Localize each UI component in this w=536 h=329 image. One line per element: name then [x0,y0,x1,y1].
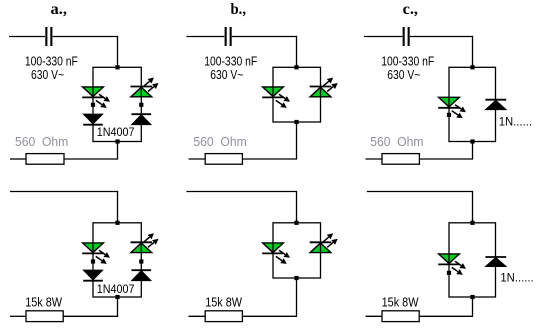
node d left mid junction [91,259,95,263]
wire b top-left segment [187,36,225,38]
LED D2d green [131,233,159,252]
wire a bridge loop [93,67,141,141]
svg-text:630 V~: 630 V~ [31,68,64,82]
node c below LED junction [447,113,451,117]
wire e resistor left stub [189,315,206,317]
resistor R2f 15k 8W [382,311,419,322]
node a top junction [115,65,119,69]
wire b bottom horizontal [243,158,298,160]
svg-text:b.,: b., [231,1,247,18]
wire b resistor left stub [189,158,206,160]
wire b bottom down [296,122,298,159]
resistor R2d 15k 8W [26,311,63,322]
wire a cap to corner [53,36,119,38]
LED D1b green [262,87,290,108]
resistor R1c 560 Ohm [382,154,419,165]
wire c bottom horizontal [419,158,473,160]
diode D4d 1N4007 [132,270,152,280]
wire b bridge loop [273,67,321,122]
wire c resistor left stub [366,158,383,160]
wire d resistor left stub [10,315,26,317]
capacitor C-b 100-330nF [225,27,232,46]
diode D2c 1N [485,100,506,110]
LED D1a green [82,87,110,108]
node a bottom junction [115,139,119,143]
svg-text:630 V~: 630 V~ [387,68,420,82]
svg-text:560 Ohm: 560 Ohm [370,135,423,149]
svg-text:1N4007: 1N4007 [97,125,135,139]
LED D2a green [131,78,159,97]
wire b cap to corner [232,36,297,38]
wire f bottom horizontal [419,315,473,317]
svg-text:15k 8W: 15k 8W [205,296,242,310]
wire e bottom down [296,278,298,316]
wire e feed down [296,191,298,223]
wire c feed down [472,36,474,67]
svg-text:560 Ohm: 560 Ohm [15,135,68,149]
node c bottom junction [470,139,474,143]
node f below LED junction [447,271,451,275]
wire c top-left segment [364,36,402,38]
wire f bridge loop [449,223,496,297]
svg-text:1N4007: 1N4007 [97,282,135,296]
wire c bottom down [472,142,474,160]
LED D1d green [82,243,110,264]
LED D2e green [310,233,338,252]
LED D1f green [438,254,466,275]
svg-text:a.,: a., [51,1,68,18]
capacitor C-c 100-330nF [403,27,410,46]
LED D1c green [438,97,466,118]
LED D1e green [262,243,290,264]
resistor R2e 15k 8W [205,311,242,322]
node f top junction [470,221,474,225]
capacitor C-a 100-330nF [45,27,52,46]
LED D2b green [310,78,338,97]
svg-text:560 Ohm: 560 Ohm [193,135,246,149]
diode D4a 1N4007 [132,114,152,124]
svg-text:630 V~: 630 V~ [210,68,243,82]
wire a top-left segment [9,36,45,38]
wire f feed down [472,191,474,223]
wire f top segment [367,191,473,193]
wire d bridge loop [93,223,141,297]
svg-text:100-330 nF: 100-330 nF [25,54,78,68]
svg-text:1N......: 1N...... [499,114,532,128]
svg-text:1N......: 1N...... [500,271,533,285]
node d right mid junction [139,259,143,263]
node c top junction [470,65,474,69]
wire c bridge loop [449,67,496,141]
wire d bottom horizontal [63,315,118,317]
node a left mid junction [91,103,95,107]
node b bottom junction [294,120,298,124]
node b top junction [294,65,298,69]
wire f bottom down [472,297,474,316]
svg-text:100-330 nF: 100-330 nF [381,54,434,68]
node e top junction [294,221,298,225]
node a right mid junction [139,103,143,107]
resistor R1a 560 Ohm [26,154,64,165]
node d bottom junction [115,295,119,299]
wire f resistor left stub [366,315,383,317]
wire a bottom horizontal [64,158,118,160]
wire a bottom down [117,142,119,160]
wire d bottom down [117,297,119,316]
wire d top segment [10,191,118,193]
svg-text:15k 8W: 15k 8W [25,296,62,310]
node f bottom junction [470,295,474,299]
wire e bottom horizontal [243,315,298,317]
wire a feed down [117,36,119,67]
svg-text:c.,: c., [403,1,418,18]
wire e bridge loop [273,223,321,278]
diode D3a 1N4007 [83,114,103,125]
wire b feed down [296,36,298,67]
resistor R1b 560 Ohm [205,154,242,165]
node e bottom junction [294,276,298,280]
svg-text:15k 8W: 15k 8W [382,296,419,310]
svg-text:100-330 nF: 100-330 nF [204,54,257,68]
wire e top segment [187,191,298,193]
diode D2f 1N [485,257,506,266]
node d top junction [115,221,119,225]
wire d feed down [117,191,119,223]
wire c cap to corner [410,36,473,38]
diode D3d 1N4007 [83,270,103,281]
wire a resistor left stub [10,158,26,160]
